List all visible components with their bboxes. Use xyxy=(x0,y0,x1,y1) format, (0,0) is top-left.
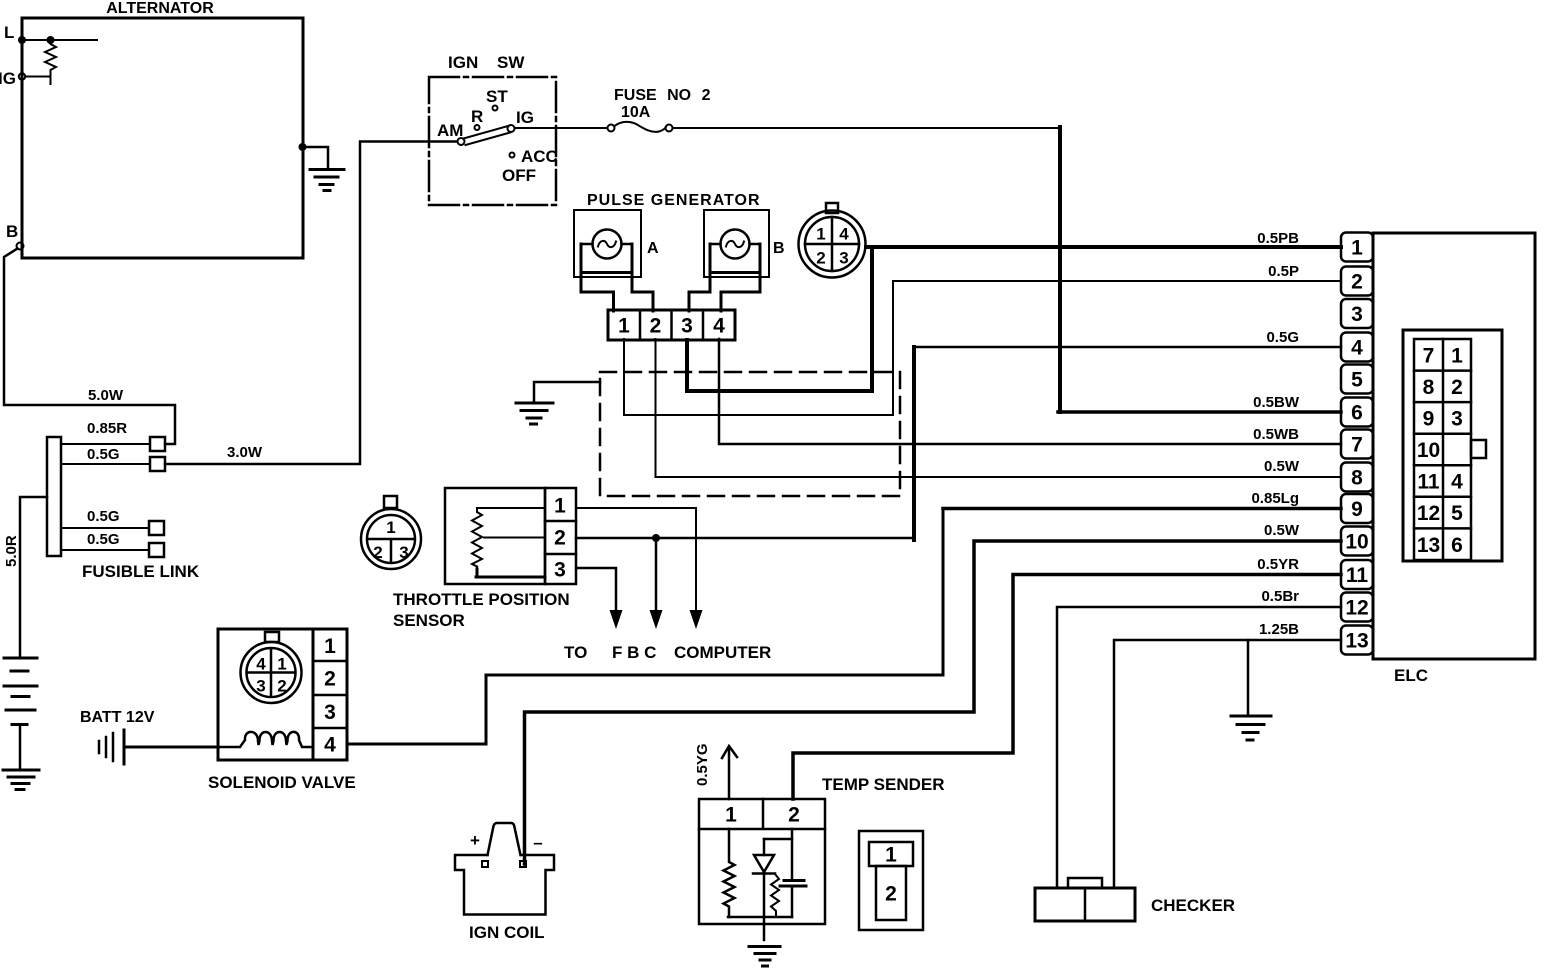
label TO FBC COMPUTER xyxy=(564,643,771,662)
terminal L xyxy=(4,23,26,44)
svg-text:1: 1 xyxy=(816,225,825,244)
svg-text:0.5G: 0.5G xyxy=(1266,329,1299,346)
checker xyxy=(1035,878,1235,921)
svg-text:0.5PB: 0.5PB xyxy=(1257,230,1299,247)
svg-text:8: 8 xyxy=(1351,467,1363,490)
svg-text:10A: 10A xyxy=(621,104,651,121)
svg-text:1: 1 xyxy=(618,315,630,338)
solenoid pin strip 1-4 xyxy=(313,629,347,760)
svg-text:R: R xyxy=(471,107,483,126)
svg-text:ACC: ACC xyxy=(521,147,558,166)
svg-text:12: 12 xyxy=(1345,597,1368,620)
svg-text:0.5YR: 0.5YR xyxy=(1257,556,1299,573)
svg-text:3: 3 xyxy=(1451,408,1463,431)
svg-text:10: 10 xyxy=(1345,531,1368,554)
terminal B xyxy=(6,222,24,250)
ELC inner connector xyxy=(1403,330,1502,561)
pulse connector strip 1-4 xyxy=(608,310,735,340)
fuse NO 2 10A xyxy=(608,87,711,132)
svg-text:ST: ST xyxy=(486,87,508,106)
svg-text:SW: SW xyxy=(497,53,525,72)
battery xyxy=(4,658,37,770)
svg-text:3: 3 xyxy=(554,559,566,582)
svg-text:4: 4 xyxy=(1351,337,1363,360)
svg-text:4: 4 xyxy=(256,655,266,674)
terminal 0.5G (to ign sw) xyxy=(61,446,165,471)
svg-text:1: 1 xyxy=(885,844,897,867)
svg-text:3: 3 xyxy=(256,677,265,696)
svg-text:B: B xyxy=(773,240,785,257)
svg-text:1: 1 xyxy=(386,518,395,537)
svg-text:2: 2 xyxy=(788,804,800,827)
svg-text:TEMP SENDER: TEMP SENDER xyxy=(822,775,945,794)
svg-text:IGN COIL: IGN COIL xyxy=(469,923,545,942)
svg-text:4: 4 xyxy=(713,315,725,338)
wire BATT to solenoid xyxy=(124,746,218,749)
ground (battery) xyxy=(3,770,39,790)
wire pulse pin3 riser xyxy=(687,249,872,391)
wire 0.5Br xyxy=(1057,588,1341,888)
round connector (solenoid) xyxy=(241,632,302,703)
fusible link bar xyxy=(47,437,61,556)
svg-text:IG: IG xyxy=(516,108,534,127)
wire TPS pin3 to FBC xyxy=(576,568,623,629)
svg-text:11: 11 xyxy=(1346,564,1369,587)
svg-text:9: 9 xyxy=(1423,408,1435,431)
battery feed symbol BATT 12V xyxy=(80,709,155,764)
wire A to pin1 xyxy=(581,273,614,311)
wire 0.5YR xyxy=(793,556,1341,799)
svg-text:0.85R: 0.85R xyxy=(87,420,127,437)
solenoid coil xyxy=(218,732,313,747)
svg-text:7: 7 xyxy=(1351,434,1363,457)
svg-text:+: + xyxy=(470,831,480,850)
svg-text:PULSE GENERATOR: PULSE GENERATOR xyxy=(587,192,761,209)
svg-text:3: 3 xyxy=(681,315,693,338)
svg-text:1: 1 xyxy=(1351,237,1363,260)
svg-text:CHECKER: CHECKER xyxy=(1151,896,1235,915)
svg-text:IG: IG xyxy=(0,69,16,88)
svg-text:THROTTLE POSITION: THROTTLE POSITION xyxy=(393,590,570,609)
svg-text:11: 11 xyxy=(1417,471,1440,494)
round connector (pulse generator) xyxy=(799,203,866,278)
svg-text:2: 2 xyxy=(885,883,897,906)
svg-text:1: 1 xyxy=(324,635,336,658)
svg-text:13: 13 xyxy=(1417,534,1440,557)
wire 0.5WB (pulse pin4) xyxy=(719,339,1341,444)
wire 0.5W (pulse pin2) xyxy=(656,339,1342,477)
resistor (temp sender) xyxy=(724,829,735,917)
connector (temp sender mating) xyxy=(859,831,923,930)
svg-text:COMPUTER: COMPUTER xyxy=(674,643,771,662)
svg-text:4: 4 xyxy=(839,225,849,244)
arrow 0.5YG xyxy=(694,743,737,799)
thermistor xyxy=(753,839,779,940)
wire A to pin2 xyxy=(632,273,653,311)
ELC pin strip 1-13 xyxy=(1341,233,1373,655)
svg-text:2: 2 xyxy=(816,249,825,268)
svg-text:ELC: ELC xyxy=(1394,666,1428,685)
wire B to pin4 xyxy=(721,273,760,311)
contact R xyxy=(471,107,483,130)
ignition switch box xyxy=(429,53,556,205)
svg-text:10: 10 xyxy=(1417,439,1440,462)
terminal 0.5G (spare 1) xyxy=(61,508,164,535)
ELC box xyxy=(1373,233,1535,685)
svg-text:1: 1 xyxy=(554,495,566,518)
svg-text:4: 4 xyxy=(1451,471,1463,494)
svg-text:2: 2 xyxy=(277,677,286,696)
svg-text:13: 13 xyxy=(1345,630,1368,653)
ignition coil xyxy=(455,823,554,942)
alternator box xyxy=(22,0,303,258)
svg-text:2: 2 xyxy=(1451,376,1463,399)
svg-text:0.5G: 0.5G xyxy=(87,446,120,463)
svg-text:0.85Lg: 0.85Lg xyxy=(1251,490,1299,507)
svg-text:0.5P: 0.5P xyxy=(1268,263,1299,280)
shield (dashed box) xyxy=(600,372,900,496)
svg-text:0.5G: 0.5G xyxy=(87,531,120,548)
svg-text:5.0R: 5.0R xyxy=(3,535,20,567)
svg-text:SENSOR: SENSOR xyxy=(393,611,465,630)
pulse generator B xyxy=(704,210,785,277)
svg-text:7: 7 xyxy=(1423,344,1435,367)
svg-text:FUSIBLE LINK: FUSIBLE LINK xyxy=(82,562,200,581)
wire TPS pin1 to FBC xyxy=(576,508,703,629)
svg-text:2: 2 xyxy=(650,315,662,338)
svg-text:3: 3 xyxy=(324,701,336,724)
svg-text:0.5BW: 0.5BW xyxy=(1253,394,1300,411)
ground (ELC) xyxy=(1231,640,1271,740)
svg-text:1.25B: 1.25B xyxy=(1259,621,1299,638)
capacitor (temp sender) xyxy=(780,829,806,917)
svg-text:2: 2 xyxy=(324,668,336,691)
svg-text:5: 5 xyxy=(1351,369,1363,392)
svg-text:A: A xyxy=(647,240,659,257)
wire 0.85Lg xyxy=(347,490,1341,744)
svg-text:3: 3 xyxy=(839,249,848,268)
terminal IG xyxy=(0,69,51,88)
svg-text:3.0W: 3.0W xyxy=(227,444,263,461)
contact ACC xyxy=(510,147,558,166)
wire TPS pin2 branch to FBC xyxy=(650,538,663,629)
svg-text:9: 9 xyxy=(1351,498,1363,521)
svg-text:0.5YG: 0.5YG xyxy=(694,743,711,786)
wire 0.5BW xyxy=(515,127,1342,412)
wire 0.5PB xyxy=(866,230,1341,247)
ground (shield) xyxy=(516,382,600,424)
svg-text:3: 3 xyxy=(1351,303,1363,326)
svg-text:TO: TO xyxy=(564,643,587,662)
svg-text:–: – xyxy=(533,833,542,852)
svg-text:1: 1 xyxy=(277,655,286,674)
temp sender internal node wires xyxy=(728,839,792,917)
wire 5.0W xyxy=(4,249,175,445)
svg-text:1: 1 xyxy=(1451,344,1463,367)
contact ST xyxy=(486,87,508,111)
wire 0.5W (ign coil to ELC pin10) xyxy=(525,522,1342,864)
svg-text:0.5G: 0.5G xyxy=(87,508,120,525)
svg-text:3: 3 xyxy=(399,543,408,562)
wire 1.25B xyxy=(1114,621,1341,888)
svg-text:5: 5 xyxy=(1451,502,1463,525)
svg-text:6: 6 xyxy=(1351,402,1363,425)
svg-text:0.5WB: 0.5WB xyxy=(1253,426,1299,443)
wire 0.5G xyxy=(576,329,1341,542)
terminal 0.85R xyxy=(61,420,165,451)
ground (alternator) xyxy=(299,143,345,191)
svg-text:5.0W: 5.0W xyxy=(88,387,124,404)
label THROTTLE POSITION SENSOR xyxy=(393,590,570,630)
svg-text:B: B xyxy=(6,222,18,241)
svg-text:2: 2 xyxy=(1351,271,1363,294)
svg-text:8: 8 xyxy=(1423,376,1435,399)
svg-text:OFF: OFF xyxy=(502,166,536,185)
temp sender box xyxy=(699,775,945,924)
svg-text:F B C: F B C xyxy=(612,643,656,662)
svg-text:IGN: IGN xyxy=(448,53,478,72)
pulse generator A xyxy=(574,210,659,277)
svg-text:0.5W: 0.5W xyxy=(1264,522,1300,539)
potentiometer (TPS) xyxy=(472,508,545,577)
wire 3.0W xyxy=(165,142,456,465)
svg-text:0.5W: 0.5W xyxy=(1264,458,1300,475)
solenoid valve box xyxy=(208,629,356,792)
throttle position sensor box xyxy=(445,488,576,584)
svg-text:2: 2 xyxy=(554,527,566,550)
resistor (voltage regulator) xyxy=(45,40,56,84)
svg-text:0.5Br: 0.5Br xyxy=(1261,588,1299,605)
svg-text:1: 1 xyxy=(725,804,737,827)
ground (temp sender) xyxy=(749,947,780,967)
svg-text:4: 4 xyxy=(324,734,336,757)
terminal 0.5G (spare 2) xyxy=(61,531,164,557)
wire 0.5P xyxy=(624,263,1341,415)
svg-text:AM: AM xyxy=(437,121,463,140)
svg-text:ALTERNATOR: ALTERNATOR xyxy=(106,0,214,17)
switch lever xyxy=(458,125,515,145)
wire B to pin3 xyxy=(689,273,710,311)
svg-text:BATT 12V: BATT 12V xyxy=(80,709,155,726)
svg-text:12: 12 xyxy=(1417,502,1440,525)
wire 5.0R xyxy=(3,497,47,656)
svg-text:6: 6 xyxy=(1451,534,1463,557)
round connector (throttle sensor) xyxy=(361,496,421,569)
svg-text:2: 2 xyxy=(373,543,382,562)
wire L internal xyxy=(22,36,97,44)
svg-text:L: L xyxy=(4,23,14,42)
svg-text:SOLENOID VALVE: SOLENOID VALVE xyxy=(208,773,356,792)
svg-text:FUSE NO 2: FUSE NO 2 xyxy=(614,87,711,104)
